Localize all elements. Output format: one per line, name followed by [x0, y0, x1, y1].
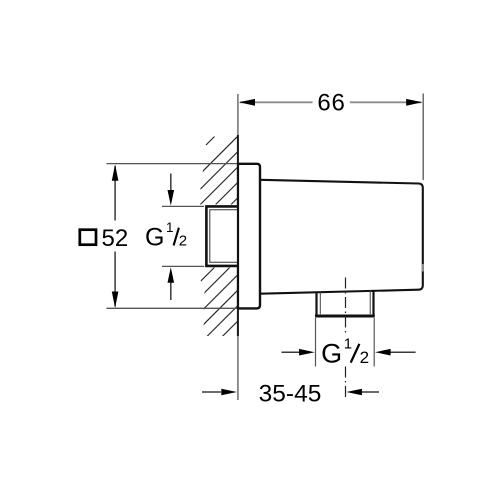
socket upper arrow — [162, 205, 204, 207]
outlet nipple — [315, 292, 317, 316]
thread socket G1/2 outer — [206, 206, 238, 266]
G 1/2 outlet right arrow — [391, 351, 416, 353]
thread socket white-out — [196, 204, 238, 267]
svg-text:G: G — [321, 339, 342, 369]
svg-text:2: 2 — [360, 348, 369, 367]
wall hatching — [24, 130, 444, 350]
dimension 66 line — [240, 101, 313, 103]
dimension 35-45 left arrow — [202, 391, 221, 393]
flange (wall plate) — [238, 164, 260, 309]
svg-text:1: 1 — [344, 335, 352, 352]
wall surface line — [237, 94, 239, 400]
body right edge light segment — [422, 264, 424, 272]
dimension 52 line — [114, 166, 116, 221]
socket lower arrow — [162, 265, 204, 267]
G 1/2 outlet left arrow — [282, 351, 301, 353]
dimension 52 extension lines — [107, 163, 238, 165]
svg-text:1: 1 — [166, 220, 174, 235]
svg-text:35-45: 35-45 — [259, 380, 322, 407]
dimension 35-45 right arrow — [362, 391, 380, 393]
dimension 66 arrowheads — [239, 99, 255, 106]
thread socket G1/2 inner thread lines — [210, 210, 238, 262]
svg-text:52: 52 — [102, 225, 129, 252]
svg-text:G: G — [145, 224, 164, 252]
dimension 66 extension line right — [422, 94, 424, 181]
dimension 52 arrowheads — [112, 164, 119, 180]
G 1/2 outlet dimension extension lines — [315, 318, 317, 367]
nipple thread lines — [319, 292, 321, 314]
svg-text:2: 2 — [179, 233, 187, 250]
hatch stub top-left — [206, 137, 215, 146]
centerline of outlet — [345, 278, 347, 337]
svg-text:66: 66 — [317, 90, 345, 117]
square symbol — [80, 230, 96, 245]
body (cube housing) — [260, 180, 422, 294]
